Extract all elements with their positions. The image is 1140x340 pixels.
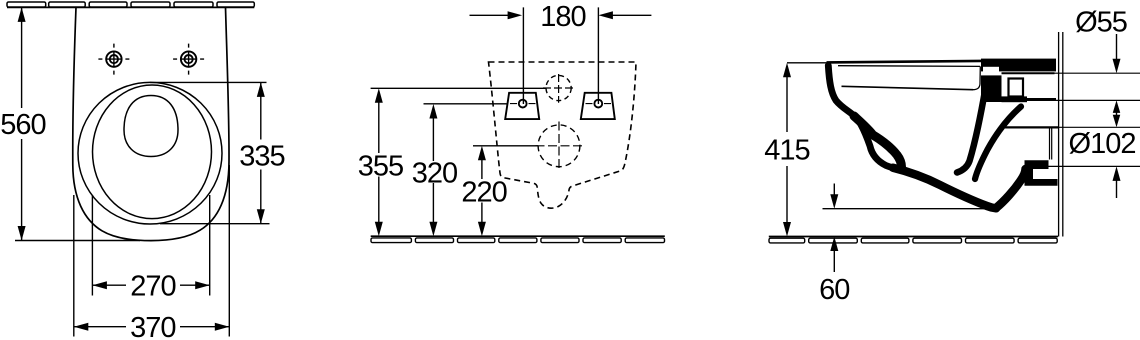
svg-text:560: 560 [0, 109, 45, 141]
svg-text:415: 415 [764, 135, 809, 167]
svg-text:Ø55: Ø55 [1075, 7, 1127, 39]
svg-text:60: 60 [819, 274, 849, 306]
svg-text:335: 335 [239, 140, 284, 172]
svg-text:270: 270 [130, 271, 175, 303]
svg-text:180: 180 [540, 1, 585, 33]
svg-text:370: 370 [130, 312, 175, 340]
svg-text:355: 355 [358, 150, 403, 182]
svg-text:320: 320 [412, 158, 457, 190]
svg-text:220: 220 [461, 176, 506, 208]
svg-text:Ø102: Ø102 [1069, 128, 1136, 160]
